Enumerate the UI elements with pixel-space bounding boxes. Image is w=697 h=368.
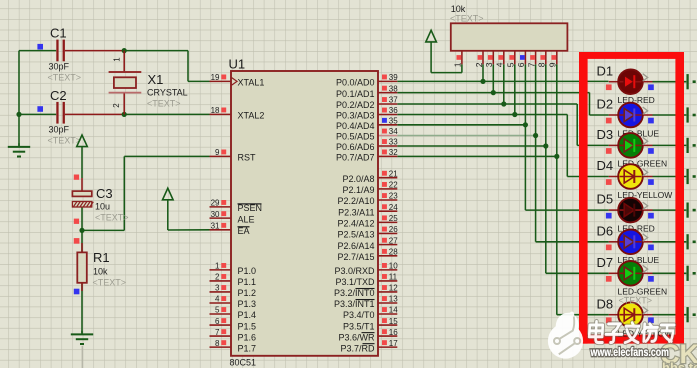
pin 29 stub	[210, 206, 232, 208]
svg-text:9: 9	[548, 62, 558, 67]
pin 26 stub	[378, 233, 397, 235]
wire P0.2 net	[397, 103, 577, 105]
svg-text:32: 32	[389, 148, 398, 157]
svg-text:10: 10	[389, 262, 398, 271]
capacitor C3	[74, 175, 79, 180]
svg-text:29: 29	[211, 199, 220, 208]
wire jog D3	[576, 104, 578, 145]
wire D7 row	[546, 272, 609, 274]
power terminal above C3	[77, 135, 88, 147]
svg-text:39: 39	[389, 73, 398, 82]
wire D6 row	[536, 241, 609, 243]
ground	[18, 143, 20, 146]
svg-text:<TEXT>: <TEXT>	[95, 213, 129, 223]
wire respack pin 6 vertical	[524, 64, 526, 210]
svg-text:P0.1/AD1: P0.1/AD1	[336, 89, 375, 99]
respack pin 6	[524, 51, 526, 65]
wire P0.6 net	[397, 145, 546, 147]
svg-text:23: 23	[389, 192, 398, 201]
LED D1	[609, 81, 619, 83]
svg-text:hhs.tch: hhs.tch	[662, 360, 697, 368]
svg-text:31: 31	[211, 222, 220, 231]
wire C1 right to crystal node	[65, 50, 124, 52]
wire jog D4	[566, 115, 568, 177]
svg-text:P0.5/AD5: P0.5/AD5	[336, 132, 375, 142]
watermark chinese text dianzi fashaoyou	[589, 322, 675, 343]
svg-text:P0.2/AD2: P0.2/AD2	[336, 100, 375, 110]
svg-text:4: 4	[215, 295, 220, 304]
ground	[81, 331, 83, 334]
svg-text:3: 3	[484, 62, 494, 67]
resistor R1	[74, 238, 80, 244]
node junction	[533, 133, 538, 138]
LED D7	[609, 272, 619, 274]
svg-text:ALE: ALE	[238, 214, 255, 224]
svg-text:P1.3: P1.3	[238, 299, 257, 309]
svg-text:P2.5/A13: P2.5/A13	[337, 230, 374, 240]
svg-text:9: 9	[215, 148, 220, 157]
svg-text:P2.2/A10: P2.2/A10	[337, 196, 374, 206]
svg-text:10k: 10k	[93, 266, 108, 276]
svg-text:28: 28	[389, 248, 398, 257]
wire D8 row	[557, 314, 609, 316]
wire P0.5 net	[397, 135, 535, 137]
pin 13 stub	[378, 302, 397, 304]
pin 21 stub	[378, 177, 397, 179]
svg-text:1: 1	[112, 57, 121, 62]
svg-text:XTAL2: XTAL2	[238, 111, 265, 121]
svg-text:P2.0/A8: P2.0/A8	[342, 174, 374, 184]
pin 14 stub	[378, 313, 397, 315]
svg-text:P2.7/A15: P2.7/A15	[337, 252, 374, 262]
node junction	[122, 48, 127, 53]
node junction	[543, 143, 548, 148]
node junction	[501, 101, 506, 106]
wire C2 row	[19, 113, 56, 115]
wire D4 anode to power rail	[653, 176, 687, 178]
svg-text:33: 33	[389, 138, 398, 147]
pin 7 stub	[210, 335, 232, 337]
svg-text:P3.3/INT1: P3.3/INT1	[334, 299, 375, 309]
wire D3 anode to power rail	[653, 144, 687, 146]
svg-text:26: 26	[389, 225, 398, 234]
svg-text:D4: D4	[597, 158, 614, 173]
LED D3	[609, 144, 619, 146]
LED D2	[609, 114, 619, 116]
pin 37 stub	[378, 103, 397, 105]
capacitor C2	[56, 102, 58, 124]
pin 15 stub	[378, 324, 397, 326]
svg-text:7: 7	[526, 62, 536, 67]
node junction	[16, 112, 21, 117]
wire D6 anode to power rail	[653, 241, 687, 243]
wire P0.1 net	[397, 92, 589, 94]
power terminal above EA	[163, 188, 174, 200]
pin 25 stub	[378, 221, 397, 223]
svg-text:14: 14	[389, 306, 398, 315]
pin 8 stub	[210, 346, 232, 348]
node junction	[512, 112, 517, 117]
svg-text:6: 6	[516, 62, 526, 67]
svg-text:<TEXT>: <TEXT>	[48, 73, 82, 83]
svg-text:6: 6	[215, 317, 220, 326]
pin 35 stub	[378, 124, 397, 126]
svg-text:2: 2	[474, 62, 484, 67]
svg-text:P1.7: P1.7	[238, 343, 257, 353]
svg-text:D7: D7	[597, 255, 614, 270]
svg-text:PSEN: PSEN	[238, 203, 263, 213]
svg-text:17: 17	[389, 339, 398, 348]
wire respack pin 2 vertical	[482, 64, 484, 81]
svg-text:27: 27	[389, 236, 398, 245]
svg-text:<TEXT>: <TEXT>	[147, 99, 181, 109]
LED D5	[609, 209, 619, 211]
pin 32 stub	[378, 155, 397, 157]
pin 33 stub	[378, 145, 397, 147]
svg-text:P3.6/WR: P3.6/WR	[338, 332, 375, 342]
pin 31 stub	[210, 229, 232, 231]
svg-text:<TEXT>: <TEXT>	[619, 295, 653, 305]
svg-text:CRYSTAL: CRYSTAL	[147, 87, 188, 97]
svg-text:C3: C3	[96, 186, 113, 201]
watermark logo circle	[548, 312, 697, 368]
svg-text:18: 18	[211, 106, 220, 115]
wire C1 left	[19, 50, 56, 52]
svg-text:<TEXT>: <TEXT>	[48, 136, 82, 146]
svg-text:X1: X1	[148, 72, 164, 87]
wire D5 anode to power rail	[653, 209, 687, 211]
svg-text:13: 13	[389, 295, 398, 304]
svg-text:<TEXT>: <TEXT>	[450, 13, 484, 23]
wire respack pin 7 vertical	[535, 64, 537, 242]
svg-text:<TEXT>: <TEXT>	[93, 277, 127, 287]
pin 16 stub	[378, 335, 397, 337]
node junction	[122, 112, 127, 117]
wire respack pin 9 vertical	[556, 64, 558, 314]
wire P0.4 net	[397, 124, 525, 126]
svg-text:P0.0/AD0: P0.0/AD0	[336, 78, 375, 88]
svg-text:10u: 10u	[95, 202, 110, 212]
svg-text:P3.0/RXD: P3.0/RXD	[334, 266, 375, 276]
svg-text:37: 37	[389, 96, 398, 105]
wire C3 to junction to R1	[81, 207, 83, 252]
svg-text:35: 35	[389, 117, 398, 126]
svg-text:P2.6/A14: P2.6/A14	[337, 241, 374, 251]
wire respack pin1 to power	[461, 64, 463, 72]
wire D8 anode to power rail	[653, 314, 687, 316]
pin 30 stub	[210, 217, 232, 219]
wire jog D2	[589, 93, 591, 115]
respack pin 9	[556, 51, 558, 65]
svg-text:P3.4/T0: P3.4/T0	[343, 310, 375, 320]
svg-text:80C51: 80C51	[230, 358, 257, 368]
svg-text:12: 12	[389, 284, 398, 293]
svg-text:22: 22	[389, 181, 398, 190]
svg-text:R1: R1	[93, 250, 110, 265]
svg-text:XTAL1: XTAL1	[238, 78, 265, 88]
pin 4 stub	[210, 302, 232, 304]
svg-text:P0.4/AD4: P0.4/AD4	[336, 121, 375, 131]
svg-text:25: 25	[389, 214, 398, 223]
svg-text:15: 15	[389, 317, 398, 326]
svg-text:2: 2	[215, 273, 220, 282]
svg-text:P0.3/AD3: P0.3/AD3	[336, 111, 375, 121]
svg-text:P3.7/RD: P3.7/RD	[340, 343, 375, 353]
pin 5 stub	[210, 313, 232, 315]
wire respack pin 4 vertical	[503, 64, 505, 104]
node junction	[554, 154, 559, 159]
svg-text:P2.1/A9: P2.1/A9	[342, 185, 374, 195]
IC U1 80C51 microcontroller	[231, 71, 378, 356]
svg-text:16: 16	[389, 328, 398, 337]
wire P0.3 net	[397, 114, 567, 116]
svg-text:P3.5/T1: P3.5/T1	[343, 321, 375, 331]
wire P0.0 net	[397, 80, 608, 82]
respack pin 7	[535, 51, 537, 65]
pin 22 stub	[378, 188, 397, 190]
pin 10 stub	[378, 269, 397, 271]
wire D5 row	[525, 209, 608, 211]
pin 19 stub	[210, 80, 232, 82]
svg-text:C2: C2	[50, 88, 67, 103]
svg-text:30: 30	[211, 210, 220, 219]
faint column below ground	[81, 346, 83, 368]
svg-text:24: 24	[389, 203, 398, 212]
svg-text:34: 34	[389, 127, 398, 136]
pin 23 stub	[378, 199, 397, 201]
svg-text:EA: EA	[238, 226, 250, 236]
pin 9 stub	[210, 155, 232, 157]
corner ghost watermark	[660, 339, 697, 368]
respack pin 2	[482, 51, 484, 65]
pin 36 stub	[378, 114, 397, 116]
wire junction to RST	[82, 229, 124, 231]
svg-text:P3.2/INT0: P3.2/INT0	[334, 288, 375, 298]
pin 18 stub	[210, 113, 232, 115]
pin 12 stub	[378, 291, 397, 293]
wire down to XTAL1	[187, 51, 189, 82]
svg-text:5: 5	[215, 306, 220, 315]
svg-text:1: 1	[215, 262, 220, 271]
node junction	[480, 79, 485, 84]
svg-text:30pF: 30pF	[49, 62, 70, 72]
wire R1 bottom to ground	[81, 283, 83, 334]
svg-text:8: 8	[215, 339, 220, 348]
wire D2 anode to power rail	[653, 114, 687, 116]
svg-text:4: 4	[495, 62, 505, 67]
svg-text:7: 7	[215, 328, 220, 337]
svg-text:19: 19	[211, 73, 220, 82]
pin 2 stub	[210, 280, 232, 282]
svg-text:38: 38	[389, 84, 398, 93]
pin 17 stub	[378, 346, 397, 348]
respack pin 8	[545, 51, 547, 65]
pin 3 stub	[210, 291, 232, 293]
pin 1 stub	[210, 269, 232, 271]
svg-text:P0.7/AD7: P0.7/AD7	[336, 153, 375, 163]
node junction	[79, 228, 84, 233]
wire P0.7 net	[397, 155, 557, 157]
svg-text:P2.3/A11: P2.3/A11	[338, 207, 374, 217]
svg-text:D3: D3	[597, 127, 614, 142]
svg-text:2: 2	[112, 103, 121, 108]
svg-text:D2: D2	[597, 97, 614, 112]
svg-text:www.elecfans.com: www.elecfans.com	[590, 347, 669, 359]
svg-text:11: 11	[389, 273, 398, 282]
svg-text:RST: RST	[238, 153, 257, 163]
LED D4	[609, 176, 619, 178]
svg-text:P1.6: P1.6	[238, 332, 257, 342]
node junction	[491, 90, 496, 95]
pin 27 stub	[378, 244, 397, 246]
svg-text:30pF: 30pF	[49, 125, 70, 135]
wire respack pin 5 vertical	[514, 64, 516, 114]
svg-text:P1.2: P1.2	[238, 288, 257, 298]
svg-text:U1: U1	[229, 57, 246, 72]
svg-text:3: 3	[215, 284, 220, 293]
LED D8	[609, 314, 619, 316]
respack pin 5	[514, 51, 516, 65]
svg-text:P3.1/TXD: P3.1/TXD	[335, 277, 375, 287]
svg-text:D1: D1	[597, 63, 614, 78]
svg-text:C1: C1	[50, 26, 67, 41]
svg-text:P2.4/A12: P2.4/A12	[337, 219, 374, 229]
red highlight frame around LED column	[579, 52, 588, 344]
svg-text:D6: D6	[597, 223, 614, 238]
pin 39 stub	[378, 80, 397, 82]
svg-text:36: 36	[389, 106, 398, 115]
wire respack pin 8 vertical	[545, 64, 547, 273]
respack pin 4	[503, 51, 505, 65]
wire respack pin 3 vertical	[492, 64, 494, 92]
pin 38 stub	[378, 92, 397, 94]
svg-text:D8: D8	[597, 296, 614, 311]
svg-text:P1.0: P1.0	[238, 266, 257, 276]
pin 6 stub	[210, 324, 232, 326]
wire C3 top from power arrow	[81, 146, 83, 178]
pin 24 stub	[378, 210, 397, 212]
svg-text:1: 1	[453, 62, 463, 67]
svg-text:P0.6/AD6: P0.6/AD6	[336, 142, 375, 152]
node junction	[523, 122, 528, 127]
resistor pack RP 10k	[451, 23, 568, 51]
svg-text:P1.1: P1.1	[238, 277, 257, 287]
svg-text:8: 8	[537, 62, 547, 67]
svg-text:P1.5: P1.5	[238, 321, 257, 331]
pin 28 stub	[378, 255, 397, 257]
wire D1 anode to power rail	[653, 81, 687, 83]
wire EA power arrow	[167, 200, 169, 230]
svg-text:21: 21	[389, 169, 398, 178]
power terminal respack	[426, 30, 437, 42]
pin 34 stub	[378, 135, 397, 137]
respack pin 1	[461, 51, 463, 65]
LED D6	[609, 241, 619, 243]
pin 11 stub	[378, 280, 397, 282]
svg-text:P1.4: P1.4	[238, 310, 257, 320]
respack pin 3	[492, 51, 494, 65]
capacitor C1	[56, 40, 58, 62]
svg-text:D5: D5	[597, 192, 614, 207]
svg-text:5: 5	[506, 62, 516, 67]
crystal X1	[109, 71, 142, 73]
wire left rail	[18, 51, 20, 146]
wire D7 anode to power rail	[653, 272, 687, 274]
